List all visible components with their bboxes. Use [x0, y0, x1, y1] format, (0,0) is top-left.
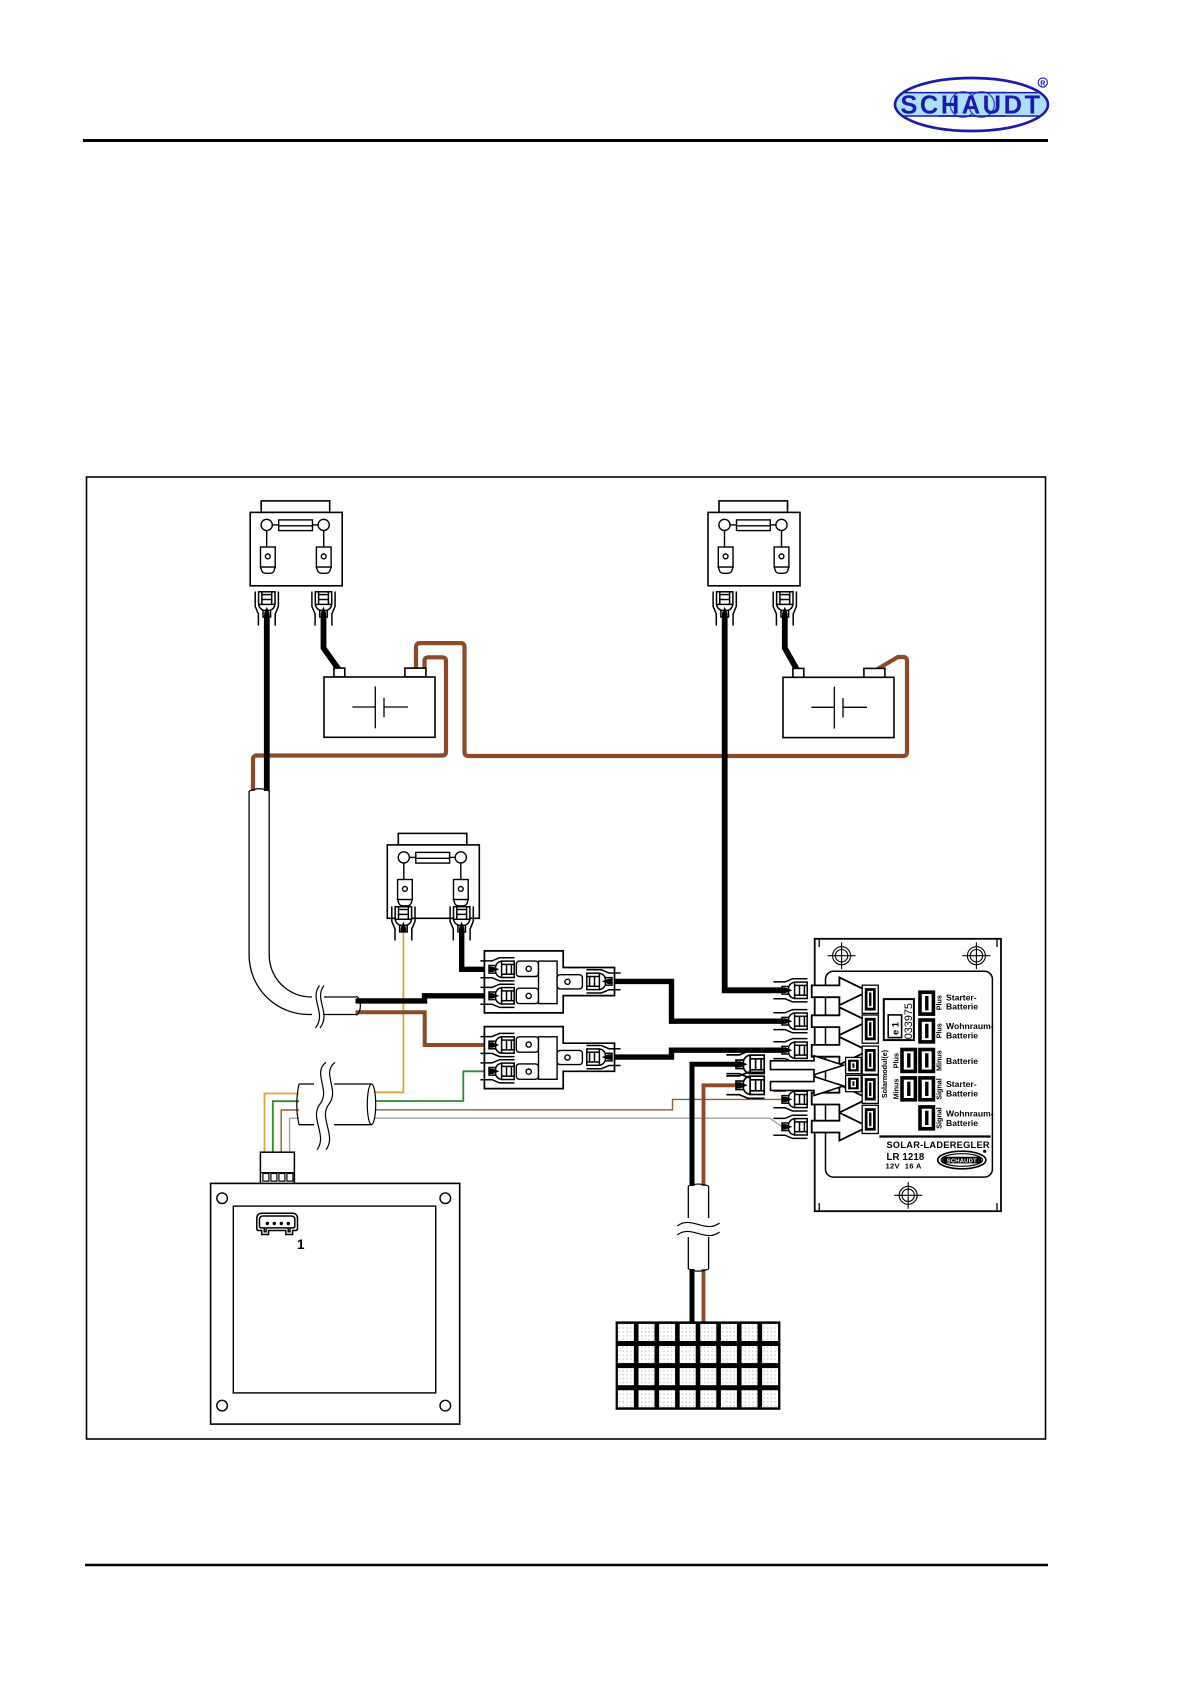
svg-text:1: 1	[297, 1237, 305, 1252]
svg-text:Batterie: Batterie	[946, 1056, 978, 1066]
svg-text:Batterie: Batterie	[946, 1002, 978, 1012]
svg-text:Signal: Signal	[935, 1078, 944, 1100]
svg-text:e 1: e 1	[891, 1022, 901, 1035]
svg-text:Minus: Minus	[935, 1050, 944, 1071]
svg-text:12V 16 A: 12V 16 A	[886, 1162, 922, 1171]
svg-text:Plus: Plus	[935, 1023, 944, 1038]
svg-text:Solarmodul(e): Solarmodul(e)	[880, 1049, 889, 1098]
svg-text:R: R	[1040, 79, 1046, 88]
svg-text:SCHAUDT: SCHAUDT	[947, 1158, 977, 1164]
svg-text:Plus: Plus	[935, 995, 944, 1010]
svg-text:SCHAUDT: SCHAUDT	[900, 92, 1042, 120]
svg-text:Batterie: Batterie	[946, 1031, 978, 1041]
svg-text:SOLAR-LADEREGLER: SOLAR-LADEREGLER	[887, 1140, 990, 1150]
svg-text:Minus: Minus	[891, 1079, 900, 1100]
svg-text:Batterie: Batterie	[946, 1118, 978, 1128]
svg-text:Batterie: Batterie	[946, 1089, 978, 1099]
svg-text:Signal: Signal	[935, 1107, 944, 1129]
svg-text:Plus: Plus	[891, 1053, 900, 1068]
svg-text:033975: 033975	[903, 1003, 915, 1039]
